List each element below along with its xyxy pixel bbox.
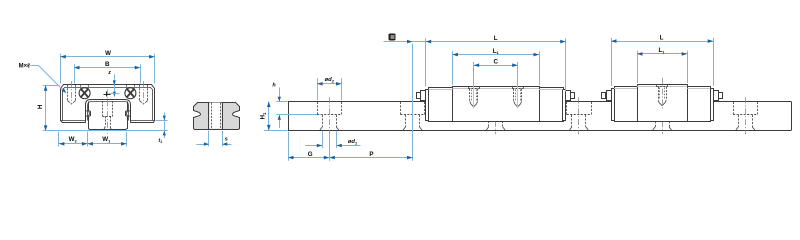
linear guide block front view outline — [61, 85, 155, 123]
dimension z arrow — [114, 75, 116, 97]
dimension H — [45, 85, 47, 131]
block groove ridge right — [127, 111, 131, 117]
dimension s extension lines — [208, 131, 210, 147]
mounting hole circle left (X mark) — [79, 88, 90, 99]
rail mounting hole 4 — [566, 102, 568, 115]
dimension L1 carriage 2 extension lines — [637, 51, 639, 83]
dimension L1 carriage 1 extension lines — [452, 51, 454, 84]
svg-text:W1: W1 — [102, 136, 111, 143]
carriage block 1 (long type) — [453, 87, 540, 122]
rail bottom extension left — [264, 130, 288, 132]
svg-text:L: L — [660, 34, 664, 41]
svg-text:P: P — [369, 151, 373, 158]
rail center line (front) — [107, 90, 109, 134]
rail front profile — [89, 102, 128, 130]
dimension B — [74, 67, 140, 69]
block inner offset line — [63, 88, 153, 121]
svg-text:s: s — [225, 137, 229, 143]
svg-text:t1: t1 — [158, 138, 162, 144]
svg-text:h: h — [272, 83, 276, 89]
rail mounting hole 5 (under carriage 2) — [655, 121, 657, 127]
carriage block 2 (short type) — [638, 85, 688, 122]
svg-text:C: C — [493, 59, 498, 66]
svg-text:z: z — [107, 70, 111, 76]
block groove ridge left — [86, 111, 90, 117]
dimension W — [60, 56, 154, 58]
svg-text:L1: L1 — [493, 48, 500, 55]
rail mounting hole 6 — [733, 102, 735, 115]
counterbore depth extension line — [276, 114, 317, 116]
dimension od2 extension lines — [317, 78, 319, 100]
hole 2 center extension line — [412, 44, 414, 161]
rail mounting hole 3 (under carriage 1) — [488, 121, 490, 127]
dimension t1 (block to rail bottom) — [164, 113, 166, 139]
svg-text:M×ℓ: M×ℓ — [19, 63, 31, 69]
dimension od2 — [317, 83, 341, 85]
leader line M&#215;&#8467; — [31, 66, 65, 92]
dimension W1 — [87, 143, 126, 145]
dimension h — [279, 88, 281, 102]
dimension H extension lines — [43, 85, 60, 87]
center mark on block top — [104, 92, 111, 97]
dimension B extension lines — [74, 64, 76, 83]
rail mounting hole 2 — [400, 102, 402, 115]
threaded hole M&#215;&#8467; left (hidden) — [67, 85, 69, 101]
block saddle cavity — [86, 100, 131, 123]
dimension W2 — [59, 143, 88, 145]
hole 1 center extension line — [329, 134, 331, 161]
dimension od1 — [306, 145, 323, 147]
rail slot hidden lines — [211, 103, 213, 129]
rail top extension line left — [276, 101, 287, 103]
dimension C — [474, 65, 518, 67]
dimension L carriage 2 extension lines — [611, 38, 613, 86]
dimension L carriage 1 extension lines — [425, 38, 427, 86]
dimension L carriage 1 — [426, 41, 566, 43]
dimension C extension lines — [473, 62, 475, 86]
block wing bottom edges — [61, 120, 86, 122]
dimension G — [288, 157, 329, 159]
rail slot white band — [210, 103, 222, 129]
dimension W extension lines — [60, 54, 62, 84]
dimension P — [329, 157, 412, 159]
mounting hole circle right (X mark) — [125, 88, 136, 99]
dimension L1 carriage 2 — [637, 53, 687, 55]
rail mounting hole 1 — [317, 102, 319, 115]
rail side view body — [288, 101, 426, 103]
svg-text:H: H — [37, 104, 44, 109]
svg-text:ød2: ød2 — [325, 77, 335, 83]
dimension od1 extension lines — [322, 131, 324, 148]
svg-text:H1: H1 — [260, 112, 267, 119]
dimension s — [196, 144, 209, 146]
dimension W2 and W1 extension lines — [58, 132, 60, 147]
rail bolt hole hidden lines (front) — [102, 101, 104, 116]
svg-text:W2: W2 — [69, 136, 78, 143]
svg-text:L1: L1 — [658, 47, 665, 54]
threaded hole M&#215;&#8467; right (hidden) — [139, 85, 141, 101]
svg-text:G: G — [308, 151, 313, 158]
block side profile (gray) — [194, 103, 240, 130]
rail end extension line — [288, 132, 290, 161]
dimension H1 — [268, 102, 270, 131]
block bottom extension line right — [156, 120, 168, 122]
svg-text:B: B — [105, 61, 110, 68]
dimension L carriage 2 — [611, 41, 713, 43]
svg-text:W: W — [105, 50, 111, 57]
svg-text:L: L — [494, 35, 498, 42]
dimension L1 carriage 1 — [452, 54, 539, 56]
rail bottom extension line — [43, 130, 168, 132]
svg-text:ød1: ød1 — [348, 139, 358, 145]
dimension E (hole to block end) — [384, 41, 426, 43]
